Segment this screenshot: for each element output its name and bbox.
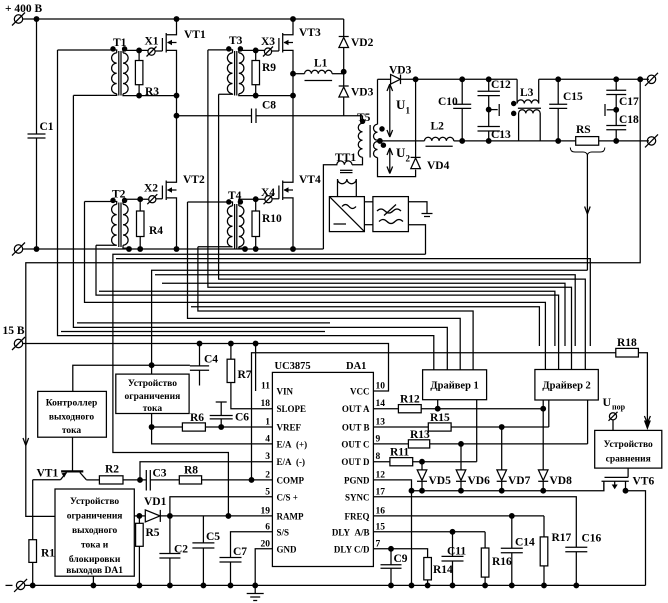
transistor VT4 (MOSFET) [279, 174, 321, 249]
wire R18 to comparator [638, 353, 647, 421]
wire top rail [23, 18, 344, 20]
svg-text:RS: RS [576, 124, 591, 136]
diode VD1 [134, 496, 272, 522]
svg-text:17: 17 [376, 487, 386, 497]
svg-text:C/S +: C/S + [277, 492, 298, 502]
svg-text:X1: X1 [145, 36, 159, 48]
svg-text:10: 10 [376, 382, 386, 392]
resistor R16 [481, 532, 512, 586]
svg-text:E/A (+): E/A (+) [277, 439, 308, 449]
transistor VT6 [602, 468, 655, 491]
svg-text:R6: R6 [190, 412, 204, 424]
svg-text:VD4: VD4 [427, 160, 450, 172]
svg-text:C1: C1 [40, 121, 54, 133]
svg-text:6: 6 [265, 522, 270, 532]
svg-text:15: 15 [376, 522, 386, 532]
pin numbers right [376, 382, 386, 550]
svg-text:VD1: VD1 [144, 496, 167, 508]
svg-text:OUT A: OUT A [342, 404, 370, 414]
wire center tap [380, 140, 425, 142]
wire bus T1 top to driver1 [58, 50, 434, 370]
terminal output plus [645, 73, 658, 86]
wire bridge bottom rail [23, 248, 324, 250]
transformer T4 [188, 190, 265, 249]
junctions on bottom rail [30, 583, 35, 588]
junction R3 bottom [137, 93, 142, 98]
transistor VT2 (MOSFET) [162, 116, 205, 249]
svg-text:R16: R16 [492, 556, 512, 568]
resistor R13 and OUT C line [373, 400, 587, 448]
svg-text:VT4: VT4 [299, 174, 321, 186]
resistor R8 [179, 464, 272, 484]
svg-text:DA1: DA1 [346, 361, 366, 372]
capacitor C10 [438, 79, 471, 141]
svg-text:ограничения: ограничения [125, 392, 181, 402]
connector X1 [145, 36, 163, 57]
wire C8 to T5 [256, 115, 363, 117]
svg-text:16: 16 [376, 506, 386, 516]
svg-text:RAMP: RAMP [277, 511, 304, 521]
junction R10 top [253, 197, 258, 202]
inductor L2 [425, 121, 463, 147]
svg-text:C5: C5 [206, 531, 220, 543]
pin labels left [277, 387, 308, 555]
shunt RS [570, 124, 605, 270]
capacitor C8 [252, 100, 277, 124]
wire bus extra b2 [162, 283, 565, 346]
wire C8 line [177, 115, 252, 117]
capacitor C15 [549, 79, 583, 141]
capacitor C12 [478, 79, 512, 127]
resistor R1 [29, 480, 55, 586]
IC DA1 UC3875 [272, 361, 373, 567]
svg-text:C15: C15 [563, 91, 583, 103]
svg-text:L2: L2 [431, 121, 445, 133]
wire output voltage feedback [26, 79, 640, 516]
svg-text:пор: пор [612, 403, 626, 412]
junction R9 top [253, 48, 258, 53]
svg-text:Драйвер 2: Драйвер 2 [542, 381, 590, 392]
resistor R17 [540, 516, 571, 586]
svg-text:Устройство: Устройство [128, 378, 177, 389]
box comparator [595, 430, 662, 468]
box controller of output current [38, 391, 107, 437]
box output current limiter and blocking [55, 489, 134, 576]
svg-text:SLOPE: SLOPE [277, 404, 307, 414]
svg-text:X3: X3 [261, 36, 275, 48]
resistor R4 [137, 199, 164, 249]
wire DLY A/B line [373, 531, 485, 533]
junction VT2 source rail [174, 247, 179, 252]
wire COMP to R18 line [252, 353, 616, 480]
capacitor C2 [159, 516, 188, 586]
terminal mid left [12, 243, 25, 256]
svg-text:L1: L1 [314, 58, 328, 70]
svg-text:14: 14 [376, 399, 386, 409]
terminal 15V [12, 337, 25, 350]
terminal output minus [645, 134, 658, 147]
svg-text:VD3: VD3 [351, 87, 374, 99]
wire GND pin [255, 549, 272, 586]
svg-text:R3: R3 [145, 86, 159, 98]
pin numbers left [261, 382, 271, 550]
svg-text:PGND: PGND [344, 475, 370, 485]
wire 15V rail [23, 344, 389, 392]
node C17 C18 midpoint [614, 108, 619, 113]
junction R9 return [291, 93, 296, 98]
svg-text:DLY C/D: DLY C/D [334, 544, 370, 554]
transistor VT1 (MOSFET) [162, 19, 206, 116]
wire bus extra a [116, 259, 590, 346]
junction supply node [149, 363, 154, 368]
resistor R7 [227, 344, 272, 409]
wire bus extra c [99, 291, 555, 346]
diode VD8 [538, 409, 572, 491]
svg-text:VD5: VD5 [429, 475, 452, 487]
rectifier block [329, 197, 364, 232]
svg-text:OUT B: OUT B [342, 423, 370, 433]
capacitor C11 [442, 532, 467, 586]
wire bus extra e [77, 322, 330, 324]
wire FREQ line [373, 515, 544, 517]
wire bus extra f [61, 331, 325, 333]
diode VD3 clamp [339, 72, 374, 116]
terminal +400V [12, 13, 25, 26]
minus label [6, 584, 13, 586]
wire EA+ line [152, 427, 273, 444]
svg-text:FREQ: FREQ [344, 511, 369, 521]
svg-text:U: U [396, 97, 406, 112]
wire bus T4 bottom to driver1 [198, 247, 473, 370]
junction R6 left [149, 425, 154, 430]
svg-text:11: 11 [261, 382, 270, 392]
svg-text:выходного: выходного [72, 526, 118, 536]
svg-text:VT3: VT3 [299, 27, 321, 39]
svg-text:U: U [603, 395, 612, 409]
transistor VT3 (MOSFET) [279, 19, 321, 179]
junction T2 sec bottom [127, 247, 132, 252]
junction R4 top [138, 197, 143, 202]
ground symbol [247, 585, 264, 600]
junction COMP feedback [249, 478, 254, 483]
resistor R11 and OUT D line [373, 400, 476, 466]
junction R9 bottom [253, 93, 258, 98]
svg-text:VD7: VD7 [508, 475, 531, 487]
svg-text:блокировки: блокировки [69, 554, 121, 565]
svg-text:9: 9 [376, 434, 381, 444]
svg-text:выходов DA1: выходов DA1 [66, 566, 123, 576]
svg-text:тока: тока [62, 426, 82, 436]
capacitor C13 [478, 127, 512, 142]
svg-text:VCC: VCC [350, 387, 370, 397]
diode VD3 output rectifier [378, 65, 463, 85]
svg-text:R11: R11 [390, 447, 409, 459]
svg-text:1: 1 [406, 106, 411, 116]
svg-text:C14: C14 [515, 537, 535, 549]
svg-text:2: 2 [265, 470, 270, 480]
svg-text:C7: C7 [233, 546, 247, 558]
svg-text:тока и: тока и [81, 541, 109, 551]
wire bus T3 top to driver2 [208, 50, 572, 370]
connector X4 [261, 187, 279, 204]
junction VIN branch [253, 341, 258, 346]
junction R4 bottom rail [138, 247, 143, 252]
transformer T3 [208, 35, 293, 96]
svg-text:R5: R5 [146, 527, 160, 539]
junction C1 top [34, 17, 39, 22]
wire PGND [373, 480, 411, 586]
svg-text:VD8: VD8 [550, 475, 573, 487]
svg-text:сравнения: сравнения [606, 455, 651, 465]
svg-text:R1: R1 [41, 548, 55, 560]
svg-text:R8: R8 [184, 464, 198, 476]
junction C1 bottom [34, 247, 39, 252]
svg-text:C18: C18 [619, 114, 639, 126]
terminal bottom minus [14, 579, 27, 592]
svg-text:VT6: VT6 [633, 476, 655, 488]
svg-text:VD2: VD2 [351, 37, 374, 49]
resistor R10 [252, 199, 282, 249]
transistor VT1 bipolar [37, 437, 87, 480]
junction VT3 drain [291, 17, 296, 22]
junction VD2/L1/VD3 [341, 69, 346, 74]
svg-text:UC3875: UC3875 [275, 361, 311, 372]
svg-text:C16: C16 [582, 533, 602, 545]
inductor L1 [293, 58, 344, 81]
capacitor C16 [565, 533, 601, 586]
wire bus T1 bottom to driver1 [73, 95, 447, 369]
wire bus RS-sense line [152, 270, 588, 374]
svg-text:Устройство: Устройство [70, 496, 119, 507]
svg-text:13: 13 [376, 418, 386, 428]
junction VT1 drain [174, 17, 179, 22]
svg-text:8: 8 [376, 452, 381, 462]
svg-text:1: 1 [265, 418, 270, 428]
svg-text:R4: R4 [149, 225, 163, 237]
junction C6 bottom [219, 425, 224, 430]
svg-text:VREF: VREF [277, 423, 302, 433]
diode VD5 [417, 462, 451, 491]
U1 arrow [387, 84, 411, 137]
wire CS+ line [170, 497, 273, 516]
svg-text:20: 20 [261, 539, 271, 549]
junction R7 on rail [229, 341, 234, 346]
svg-text:C4: C4 [204, 354, 218, 366]
svg-text:VT2: VT2 [183, 174, 205, 186]
capacitor C14 [501, 516, 535, 586]
svg-text:R9: R9 [262, 62, 276, 74]
svg-text:R12: R12 [400, 394, 420, 406]
junction R3 top [137, 48, 142, 53]
svg-text:L3: L3 [520, 87, 534, 99]
svg-text:C17: C17 [619, 96, 639, 108]
svg-text:R14: R14 [433, 564, 453, 576]
transformer T2 [85, 189, 149, 250]
node C12 C13 midpoint [486, 107, 491, 112]
U2 arrow [387, 145, 411, 174]
svg-text:5: 5 [265, 487, 270, 497]
junction ramp injection [226, 514, 231, 519]
driver 2 box [535, 370, 598, 401]
junction R10 bottom rail [253, 247, 258, 252]
svg-text:тока: тока [143, 404, 163, 414]
diode VD2 [339, 19, 374, 72]
svg-text:R7: R7 [238, 369, 252, 381]
junction VD1 node [168, 514, 173, 519]
junction T4 sec bottom [243, 247, 248, 252]
svg-text:R10: R10 [262, 213, 282, 225]
wire VT6 source to rail [626, 491, 646, 586]
capacitor C9 [381, 549, 408, 586]
svg-text:12: 12 [376, 470, 386, 480]
resistor R15 and OUT B line [373, 400, 548, 431]
wire bus T4 top to driver1 [188, 202, 461, 370]
capacitor C1 [28, 19, 54, 249]
wire plus rail to L3 [462, 78, 517, 80]
capacitor C6 [210, 402, 250, 427]
inductor L3 [512, 79, 541, 141]
capacitor C17 [606, 79, 639, 125]
wire bus extra b [155, 275, 575, 346]
svg-text:7: 7 [376, 539, 381, 549]
capacitor C5 [192, 516, 220, 586]
svg-text:2: 2 [406, 154, 411, 164]
svg-text:C3: C3 [153, 468, 167, 480]
svg-text:R2: R2 [105, 463, 119, 475]
svg-text:T3: T3 [229, 35, 243, 47]
svg-text:Драйвер 1: Драйвер 1 [430, 381, 478, 392]
svg-text:C10: C10 [438, 96, 458, 108]
svg-text:R15: R15 [430, 412, 450, 424]
svg-text:VT1: VT1 [184, 29, 206, 41]
wire bus T2 bottom to driver2 [96, 245, 559, 369]
svg-text:R18: R18 [617, 337, 637, 349]
svg-text:Устройство: Устройство [604, 439, 653, 450]
resistor R3 [135, 50, 159, 98]
resistor R14 [424, 558, 453, 586]
junction mid-bridge left [174, 93, 179, 98]
svg-text:4: 4 [265, 434, 270, 444]
transformer T1 [58, 37, 177, 96]
svg-text:15 В: 15 В [3, 325, 25, 337]
diode VD6 [456, 444, 490, 491]
svg-text:U: U [396, 145, 406, 160]
capacitor C4 [190, 344, 218, 386]
svg-text:X4: X4 [261, 187, 275, 199]
svg-text:OUT D: OUT D [341, 457, 370, 467]
resistor R9 [252, 50, 276, 95]
wire DLY C/D line [373, 549, 427, 558]
resistor R5 [136, 516, 160, 586]
wire controller supply [73, 365, 190, 391]
wire bottom rail [25, 584, 646, 586]
wire bus filter-sense line [113, 254, 426, 516]
wire limiter to VREF line [151, 414, 153, 428]
ground at filter [408, 202, 432, 217]
diode VD4 [411, 79, 450, 172]
resistor R12 and OUT A line [373, 394, 543, 413]
wire SYNC to C16 [373, 497, 576, 548]
filter block [364, 197, 408, 232]
junction R5 top [137, 514, 142, 519]
box current limiter [116, 374, 189, 414]
svg-text:C12: C12 [491, 79, 511, 91]
junction output plus feedback [638, 77, 643, 82]
svg-text:OUT C: OUT C [341, 439, 369, 449]
svg-text:Контроллер: Контроллер [46, 399, 98, 409]
wire box bottom to rail [92, 576, 94, 585]
wire plus rail L3 to terminal [539, 78, 649, 80]
svg-text:C6: C6 [235, 412, 249, 424]
pin labels right [332, 387, 370, 555]
svg-text:ограничения: ограничения [67, 512, 123, 522]
capacitor C18 [606, 114, 639, 141]
resistor R18 [616, 337, 639, 357]
svg-text:C11: C11 [447, 546, 466, 558]
capacitor C7 [220, 532, 273, 586]
transformer T5 [352, 79, 416, 176]
junction VD3 cathode [413, 77, 418, 82]
svg-text:VT1: VT1 [37, 468, 59, 480]
svg-text:VD6: VD6 [468, 475, 491, 487]
junction L1 tap [291, 71, 296, 76]
wire bus extra d [191, 307, 539, 346]
svg-text:E/A (-): E/A (-) [277, 457, 306, 467]
svg-text:19: 19 [261, 506, 271, 516]
svg-text:C8: C8 [262, 100, 276, 112]
connector X2 [144, 183, 162, 205]
svg-text:R17: R17 [552, 532, 572, 544]
svg-text:выходного: выходного [49, 413, 95, 423]
arrow on feedback wire [23, 438, 29, 446]
svg-text:GND: GND [277, 544, 298, 554]
connector X3 [261, 36, 279, 57]
wire bus T2 top to driver2 [85, 202, 546, 370]
driver 1 box [423, 370, 487, 400]
wire diode rail [412, 483, 604, 491]
junction C3 node [138, 478, 143, 483]
wire output minus rail [462, 140, 649, 142]
wire VIN from rail [255, 344, 257, 392]
wire filter output [408, 225, 425, 255]
svg-text:COMP: COMP [277, 475, 305, 485]
svg-text:S/S: S/S [277, 527, 290, 537]
resistor R6 and VREF line [152, 412, 273, 431]
junction C4 on rail [197, 341, 202, 346]
capacitor C3 [146, 468, 179, 491]
svg-text:SYNC: SYNC [345, 492, 370, 502]
svg-text:C9: C9 [394, 553, 408, 565]
wire EA- line [140, 462, 272, 480]
svg-text:18: 18 [261, 399, 271, 409]
svg-text:DLY A/B: DLY A/B [332, 527, 370, 537]
svg-text:3: 3 [265, 452, 270, 462]
wire bus T3 bottom to driver2 [219, 94, 586, 369]
current transformer TT1 primary [323, 152, 356, 249]
node Upor [603, 395, 626, 430]
svg-text:VIN: VIN [277, 387, 294, 397]
svg-text:X2: X2 [144, 183, 158, 195]
wire emitter [33, 479, 61, 481]
diode VD7 [497, 427, 531, 491]
svg-text:R13: R13 [410, 429, 430, 441]
junction VT4 source rail [291, 247, 296, 252]
resistor R2 [86, 463, 146, 484]
